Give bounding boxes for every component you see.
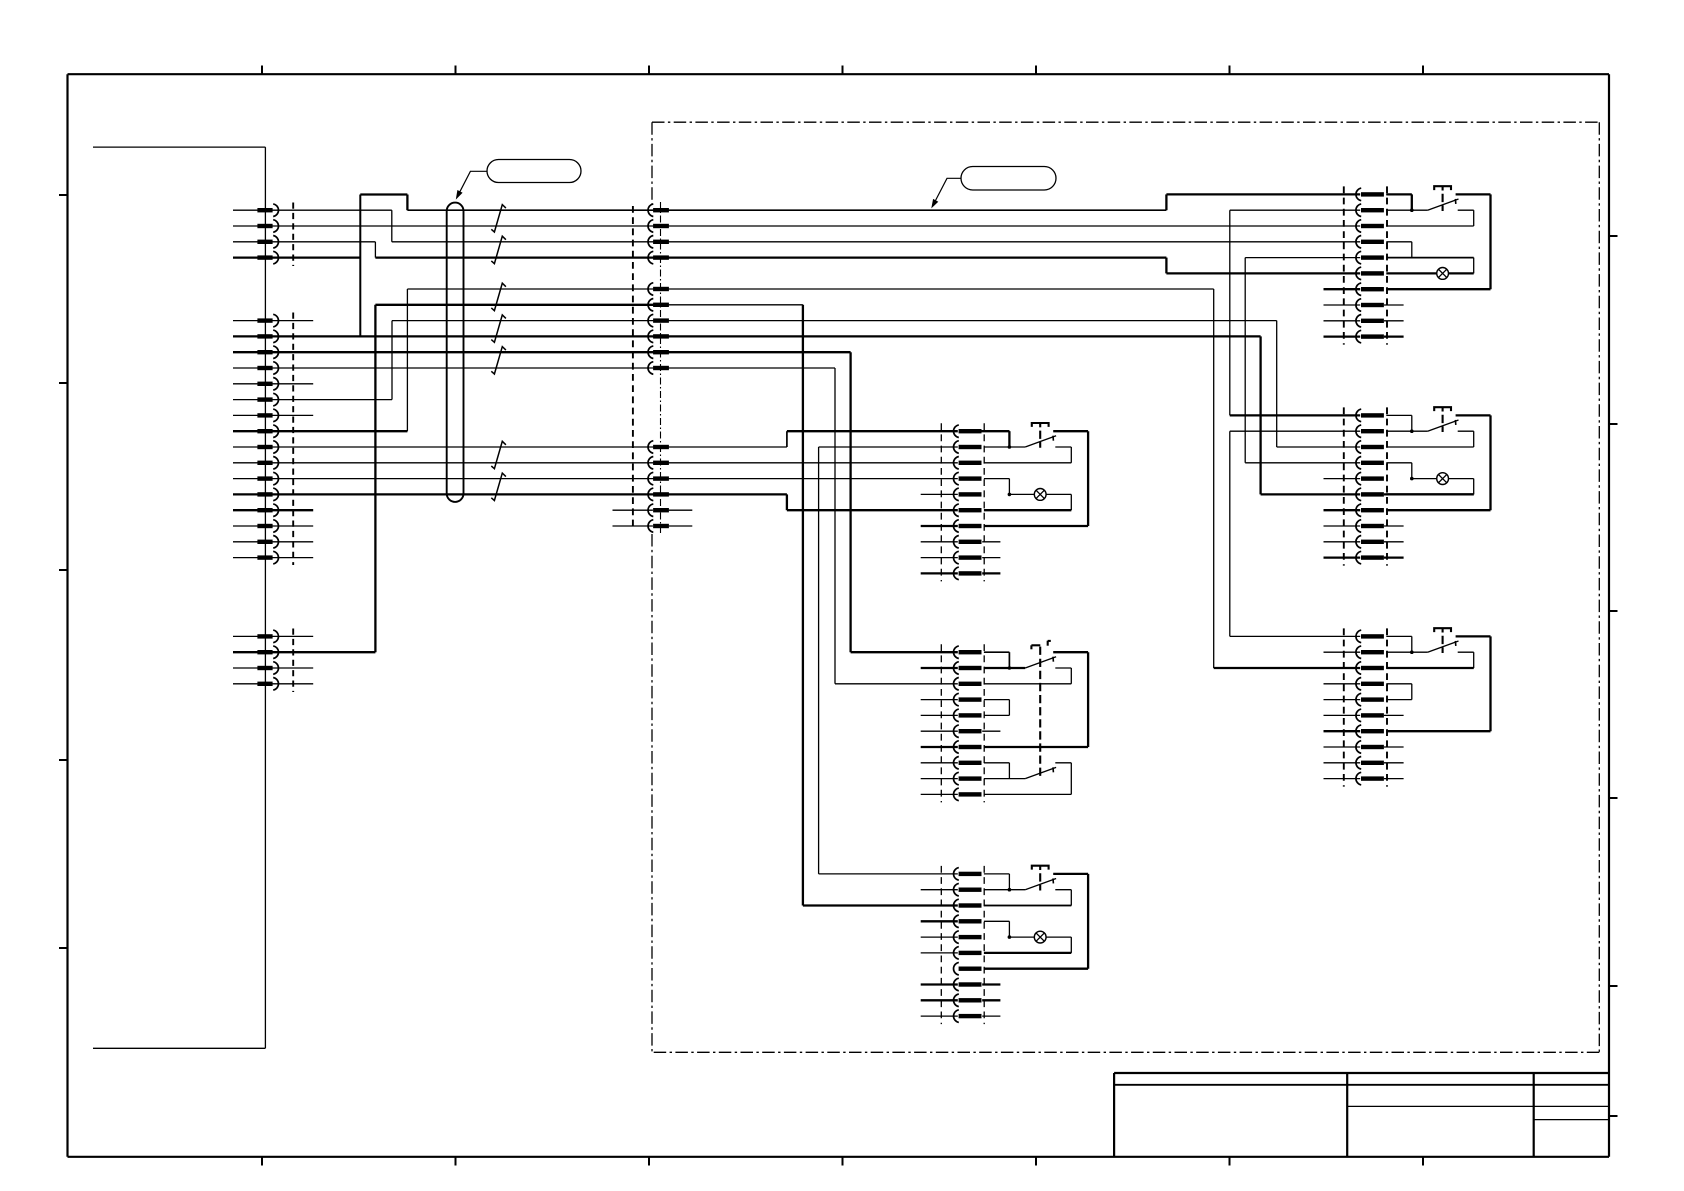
bulkhead connector J2 dashed line xyxy=(632,206,634,530)
callout 2 leader arrow xyxy=(931,178,961,208)
switch S4 NO loop xyxy=(1386,415,1490,510)
connector J1 group-1 pin 4 xyxy=(257,251,278,264)
lamp L8 junction dot xyxy=(1008,935,1012,939)
wire row-210 feed xyxy=(407,209,1166,211)
connector P6 pin 5 xyxy=(954,488,982,501)
connector J1 group-3 pin 2 xyxy=(257,646,278,659)
connector P8 pin 10 xyxy=(954,1010,982,1023)
bulkhead J2 group-3 pin 6 xyxy=(648,520,669,533)
switch S3 junction dot xyxy=(1410,208,1414,212)
switch S3 NC contact wire xyxy=(1386,210,1473,226)
wire P4 pin8 stubs xyxy=(1324,525,1404,527)
wire P6 pin1 link thick xyxy=(981,431,1010,447)
wire riser mid-p2 long xyxy=(374,305,376,652)
switch S3 NO loop xyxy=(1386,194,1490,289)
bulkhead J2 group-1 pin 4 xyxy=(648,251,669,264)
lamp L4 pin4 link xyxy=(1386,463,1412,479)
wire J1g2-6 to riser xyxy=(233,321,392,400)
wire P8 pin8 stubs xyxy=(921,983,1001,985)
wire J1g2-15 stub xyxy=(233,541,313,543)
lamp L4 bulb xyxy=(1437,473,1449,485)
wire J1g2-5 stub xyxy=(233,383,313,385)
callout balloon 2 xyxy=(961,167,1056,191)
wire row-289 bus xyxy=(407,288,1213,290)
connector P4 pin 7 xyxy=(1356,504,1384,517)
switch S7b contact wire xyxy=(984,763,1071,795)
switch S4 blade xyxy=(1428,420,1459,431)
connector P3 dashed lines xyxy=(1344,186,1387,344)
wire-count slash 1 xyxy=(491,205,506,232)
bulkhead J2 group-2 pin 5 xyxy=(648,346,669,359)
bulkhead J2 group-1 pin 2 xyxy=(648,220,669,233)
connector P5 dashed lines xyxy=(1344,628,1387,786)
lamp L6 bulb xyxy=(1034,489,1046,501)
wire J1g2-3 row-352 bus xyxy=(233,351,851,353)
wire P3 pin9 stubs xyxy=(1324,320,1404,322)
switch S6 junction dot xyxy=(1008,445,1012,449)
wire P7 pin2 stub xyxy=(921,667,958,669)
connector P8 dashed lines xyxy=(941,866,984,1024)
connector P7 pin 5 xyxy=(954,709,982,722)
switch S5 pin1 link xyxy=(1386,636,1412,652)
connector J1 group-2 pin 6 xyxy=(257,393,278,406)
connector J1 body line xyxy=(264,147,266,1048)
connector P8 pin 5 xyxy=(954,931,982,944)
wire riser to RM pin3 xyxy=(1277,321,1361,447)
wire-count slash 7 xyxy=(491,473,506,500)
wire J1g2-10 row-463 to C2 pin3 xyxy=(233,462,958,464)
switch S8 NC contact wire xyxy=(984,890,1071,906)
switch S7a stepped actuator xyxy=(1031,641,1050,650)
connector P3 pin 10 xyxy=(1356,330,1384,343)
connector P8 pin 3 xyxy=(954,899,982,912)
connector P6 pin 3 xyxy=(954,457,982,470)
wire P5 pin7 stub xyxy=(1324,730,1361,732)
lamp L6 junction dot xyxy=(1008,493,1012,497)
bulkhead J2 group-2 pin 6 xyxy=(648,362,669,375)
wire P5 pin4 stub xyxy=(1324,683,1361,685)
wire P7 pin10 stub xyxy=(921,793,958,795)
connector J1 group-3 pin 4 xyxy=(257,678,278,691)
wire P4 pin9 stubs xyxy=(1324,541,1404,543)
wire P7 pin8 stub xyxy=(921,762,958,764)
title block rows xyxy=(1114,1085,1609,1120)
connector J1 group-2 pin 11 xyxy=(257,472,278,485)
wire P3 pin7 stub xyxy=(1324,288,1361,290)
switch S7a junction dot xyxy=(1008,666,1012,670)
wire P6 pin9 stubs xyxy=(921,557,1001,559)
lamp L3 pin4 link xyxy=(1386,242,1412,258)
connector J1 group-3 pin 1 xyxy=(257,630,278,643)
switch S7b pin8 link xyxy=(984,763,1010,779)
connector P4 pin 8 xyxy=(1356,520,1384,533)
bulkhead J2 group-1 pin 3 xyxy=(648,236,669,249)
switch S6 pin1 link xyxy=(984,431,1010,447)
connector J1 group-2 pin 16 xyxy=(257,551,278,564)
connector P7 pin 8 xyxy=(954,757,982,770)
switch S6 common wire xyxy=(984,446,1025,448)
wire P5 pin9 stubs xyxy=(1324,762,1404,764)
switch S7a NC contact wire xyxy=(984,668,1071,684)
connector P3 pin 5 xyxy=(1356,251,1384,264)
connector P8 pin 4 xyxy=(954,915,982,928)
title block frame xyxy=(1114,1073,1609,1157)
wire P4 pin5 stub xyxy=(1324,478,1361,480)
connector P7 pin 10 xyxy=(954,788,982,801)
bulkhead J2 group-3 pin 3 xyxy=(648,472,669,485)
connector J1 group-2 pin 4 xyxy=(257,362,278,375)
connector P3 pin 9 xyxy=(1356,315,1384,328)
switch S5 common wire xyxy=(1386,651,1427,653)
connector P6 pin 7 xyxy=(954,520,982,533)
switch S4 actuator xyxy=(1434,407,1451,432)
wire drop J1-1 to row242 xyxy=(391,210,393,242)
connector P7 pin 2 xyxy=(954,662,982,675)
switch S7a pin1 link xyxy=(984,652,1010,668)
connector P6 pin 10 xyxy=(954,567,982,580)
connector J1 group-2 pin 8 xyxy=(257,425,278,438)
connector J1 group-2 pin 14 xyxy=(257,520,278,533)
connector P6 pin 1 xyxy=(954,425,982,438)
switch S6 NO loop xyxy=(984,431,1088,526)
switch S8 actuator xyxy=(1032,866,1049,891)
connector J1 group-3 pin 3 xyxy=(257,662,278,675)
connector P5 pin 4 xyxy=(1356,678,1384,691)
wire-count slash 3 xyxy=(491,283,506,310)
wire P5 pin5 stub xyxy=(1324,699,1361,701)
wire riser up-over xyxy=(360,195,407,337)
wire J1-2 to TR pin3 row-226 xyxy=(233,225,1360,227)
connector J1 group-2 pin 7 xyxy=(257,409,278,422)
wire P6 pin10 stubs xyxy=(921,572,1001,574)
jumper P7 pins4-5 xyxy=(984,700,1010,716)
switch S3 common wire xyxy=(1386,209,1427,211)
wire P7 pin5 stub xyxy=(921,714,958,716)
wire J1g2-14 stub xyxy=(233,525,313,527)
bulkhead J2 group-3 pin 5 xyxy=(648,504,669,517)
connector P7 pin 7 xyxy=(954,741,982,754)
callout balloon 1 xyxy=(487,160,581,183)
switch S6 blade xyxy=(1025,436,1056,447)
switch S7b blade xyxy=(1025,767,1056,778)
wire drop J1-3 to row258 xyxy=(374,242,376,258)
connector P7 pin 3 xyxy=(954,678,982,691)
connector J1 group-2 pin 3 xyxy=(257,346,278,359)
connector P4 pin 2 xyxy=(1356,425,1384,438)
connector P6 pin 4 xyxy=(954,472,982,485)
wire P5 pin2 stub xyxy=(1324,651,1361,653)
wire P6 pin7 stub xyxy=(921,525,958,527)
wire P8 pin3 inner xyxy=(984,905,1071,907)
bulkhead J2 group-2 pin 1 xyxy=(648,283,669,296)
wire jog to C2 pin1 xyxy=(787,431,958,447)
wire P8 pin5 stub xyxy=(921,936,958,938)
wire J1-4 to riser xyxy=(233,256,360,258)
wire-count slash 4 xyxy=(491,315,506,342)
wire row-242 to TR pin4 xyxy=(392,241,1360,243)
lamp L8 circuit xyxy=(984,937,1071,953)
wire J1g2-11 row-478 to C2 pin4 xyxy=(233,478,958,480)
wire J1g2-7 stub xyxy=(233,414,313,416)
connector P4 pin 5 xyxy=(1356,472,1384,485)
switch S3 blade xyxy=(1428,199,1459,210)
wire row-320 bus xyxy=(392,320,1277,322)
wire P5 pin10 stubs xyxy=(1324,778,1404,780)
connector P5 pin 8 xyxy=(1356,741,1384,754)
connector P5 pin 3 xyxy=(1356,662,1384,675)
bulkhead J2 group-3 pin 2 xyxy=(648,457,669,470)
lamp L6 circuit xyxy=(984,494,1071,510)
switch S8 common wire xyxy=(984,889,1025,891)
wire riser to LR pin3 xyxy=(1214,289,1361,668)
wire P8 pin6 stub xyxy=(921,952,958,954)
connector P5 pin 9 xyxy=(1356,757,1384,770)
bulkhead J2 group-3 pin 4 xyxy=(648,488,669,501)
connector P8 pin 2 xyxy=(954,883,982,896)
connector P6 pin 9 xyxy=(954,551,982,564)
wire P5 pin3 thick xyxy=(1386,667,1473,669)
connector P3 pin 1 xyxy=(1356,188,1384,201)
switch S3 actuator xyxy=(1434,186,1451,211)
bulkhead J2 group-3 pin 1 xyxy=(648,441,669,454)
connector P5 pin 5 xyxy=(1356,693,1384,706)
lamp L4 junction dot xyxy=(1410,477,1414,481)
connector P4 pin 9 xyxy=(1356,536,1384,549)
connector J1 mating dashed line xyxy=(292,203,294,693)
wire P8 pin10 stubs xyxy=(921,1015,1001,1017)
connector P4 pin 4 xyxy=(1356,457,1384,470)
switch S5 actuator xyxy=(1434,628,1451,653)
switch S7a NO loop xyxy=(984,652,1088,747)
wire midg3-6 stubs xyxy=(613,525,693,527)
switch S7b common xyxy=(984,778,1025,780)
switch S8 NO loop xyxy=(984,874,1088,969)
connector P7 pin 4 xyxy=(954,693,982,706)
wire-count slash 6 xyxy=(491,441,506,468)
wire P5 pin8 stubs xyxy=(1324,746,1404,748)
wire C2p2 riser to C4p1 xyxy=(819,447,958,874)
switch S6 NC contact wire xyxy=(984,447,1071,463)
connector J1 group-2 pin 13 xyxy=(257,504,278,517)
lamp L6 pin4 link xyxy=(984,479,1010,495)
connector J1 group-1 pin 2 xyxy=(257,220,278,233)
switch S5 junction dot xyxy=(1410,650,1414,654)
connector P3 pin 3 xyxy=(1356,220,1384,233)
connector P3 pin 2 xyxy=(1356,204,1384,217)
switch S3 pin1 link xyxy=(1386,194,1412,210)
switch S7a blade xyxy=(1025,657,1056,668)
switch S8 junction dot xyxy=(1008,888,1012,892)
wire J1g2-16 stub xyxy=(233,557,313,559)
wire P5 pin6 stubs xyxy=(1324,714,1404,716)
wire jog to TR pin6 xyxy=(1166,258,1360,274)
connector J1 group-2 pin 1 xyxy=(257,314,278,327)
lamp L8 bulb xyxy=(1034,931,1046,943)
switch S4 NC contact wire xyxy=(1386,431,1473,447)
connector P5 pin 6 xyxy=(1356,709,1384,722)
wire row-258 feed xyxy=(375,256,1166,258)
bulkhead J2 group-2 pin 4 xyxy=(648,330,669,343)
wire P3 pin8 stubs xyxy=(1324,304,1404,306)
wire J1-3 stub xyxy=(233,241,375,243)
wire P4 pin6 inner xyxy=(1384,493,1474,495)
lamp L8 pin4 link xyxy=(984,921,1010,937)
connector P7 pin 6 xyxy=(954,725,982,738)
switch S7a common wire xyxy=(984,667,1025,669)
connector P7 pin 1 xyxy=(954,646,982,659)
connector P8 pin 9 xyxy=(954,994,982,1007)
wire riser RMp2-LRp1 xyxy=(1230,431,1360,636)
lamp L3 bulb xyxy=(1437,268,1449,280)
bulkhead connector J2 center line xyxy=(660,202,662,534)
connector P3 pin 6 xyxy=(1356,267,1384,280)
wire riser to C3 pin3 xyxy=(835,368,958,684)
wire riser TRp2 chain xyxy=(1230,210,1360,415)
wire P8 pin9 stubs xyxy=(921,999,1001,1001)
switch S5 blade xyxy=(1428,641,1459,652)
wire J1g3-3 stub xyxy=(233,667,313,669)
connector P4 pin 6 xyxy=(1356,488,1384,501)
jumper P5 pins4-5 xyxy=(1386,684,1412,700)
wire branch RM pin1 xyxy=(1230,414,1360,416)
wire P6 pin8 stubs xyxy=(921,541,1001,543)
wire mid-p2 row-305 xyxy=(375,304,668,306)
connector P6 pin 8 xyxy=(954,536,982,549)
connector P6 dashed lines xyxy=(941,423,984,581)
wire J1g2-12 row-494 bus xyxy=(233,493,787,495)
switch S4 junction dot xyxy=(1410,429,1414,433)
wire P8 pin4 stub xyxy=(921,920,958,922)
wire J1g2-13 stub xyxy=(233,509,313,511)
wire J1g2-1 stub xyxy=(233,320,313,322)
connector P5 pin 1 xyxy=(1356,630,1384,643)
connector P8 pin 1 xyxy=(954,868,982,881)
connector P3 pin 8 xyxy=(1356,299,1384,312)
cable bundle oval xyxy=(447,203,464,502)
wire P7 pin9 stub xyxy=(921,778,958,780)
wire P4 pin7 stub xyxy=(1324,509,1361,511)
wire P7 pin6 stubs xyxy=(921,730,1001,732)
connector P4 pin 10 xyxy=(1356,551,1384,564)
connector P3 pin 4 xyxy=(1356,236,1384,249)
connector P5 pin 10 xyxy=(1356,772,1384,785)
wire P3 pin10 stubs xyxy=(1324,335,1404,337)
connector P8 pin 6 xyxy=(954,947,982,960)
wire midg3-5 stubs xyxy=(613,509,693,511)
bulkhead J2 group-2 pin 2 xyxy=(648,299,669,312)
connector P6 pin 6 xyxy=(954,504,982,517)
bulkhead J2 group-1 pin 1 xyxy=(648,204,669,217)
wire-count slash 2 xyxy=(491,236,506,263)
switch S6 actuator xyxy=(1032,423,1049,448)
connector J1 group-2 pin 10 xyxy=(257,457,278,470)
switch S5 NC contact wire xyxy=(1386,652,1473,668)
connector P7 pin 9 xyxy=(954,772,982,785)
callout 1 leader arrow xyxy=(456,171,487,199)
connector J1 group-2 pin 15 xyxy=(257,536,278,549)
connector P5 pin 2 xyxy=(1356,646,1384,659)
switch S8 pin1 link xyxy=(984,874,1010,890)
connector J1 group-2 pin 9 xyxy=(257,441,278,454)
switch S5 NO loop xyxy=(1386,636,1490,731)
wire J1g2-8 to riser xyxy=(233,289,407,431)
connector P8 pin 8 xyxy=(954,978,982,991)
wire P4 pin10 stubs xyxy=(1324,556,1404,558)
wire riser TR pin5 xyxy=(1245,258,1360,463)
connector P8 pin 7 xyxy=(954,962,982,975)
wire-count slash 5 xyxy=(491,347,506,374)
wire jog to TR pin1 xyxy=(1166,194,1360,210)
switch S7 gang linkage xyxy=(1039,647,1041,777)
wire mid-p2 to C4 riser xyxy=(669,305,958,906)
wire P8 pin2 stub xyxy=(921,889,958,891)
bulkhead J2 group-2 pin 3 xyxy=(648,314,669,327)
switch S4 common wire xyxy=(1386,430,1427,432)
wire J1g2-4 row-368 bus xyxy=(233,367,835,369)
wire J1g3-1 stub xyxy=(233,635,313,637)
wire J1g3-2 thick xyxy=(233,651,375,653)
connector J1 group-2 pin 2 xyxy=(257,330,278,343)
connector J1 group-2 pin 5 xyxy=(257,378,278,391)
connector J1 group-1 pin 1 xyxy=(257,204,278,217)
wire J1g3-4 stub xyxy=(233,683,313,685)
lamp L4 circuit xyxy=(1386,479,1473,495)
wire P6 pin5 stub xyxy=(921,493,958,495)
connector P4 pin 3 xyxy=(1356,441,1384,454)
connector P4 dashed lines xyxy=(1344,407,1387,565)
connector P6 pin 2 xyxy=(954,441,982,454)
wire P7 pin4 stub xyxy=(921,699,958,701)
connector J1 group-1 pin 3 xyxy=(257,236,278,249)
lamp L3 circuit xyxy=(1386,258,1473,274)
connector P7 dashed lines xyxy=(941,644,984,802)
wire P3 pin1 link thick xyxy=(1386,194,1412,210)
connector P4 pin 1 xyxy=(1356,409,1384,422)
connector J1 group-2 pin 12 xyxy=(257,488,278,501)
equipment box outline (left) xyxy=(93,147,265,1048)
wire riser to C3 pin1 xyxy=(851,352,958,652)
wire riser to RM pin6 xyxy=(1261,336,1361,494)
switch S8 blade xyxy=(1025,878,1056,889)
wire P7 pin7 stub xyxy=(921,746,958,748)
connector P5 pin 7 xyxy=(1356,725,1384,738)
switch S4 pin1 link xyxy=(1386,415,1412,431)
wire J1-1 stub xyxy=(233,209,392,211)
harness boundary box (dash-dot) xyxy=(652,122,1599,1052)
connector P3 pin 7 xyxy=(1356,283,1384,296)
wire J1g2-9 row-447 xyxy=(233,446,787,448)
wire jog to C2 pin6 xyxy=(787,494,958,510)
wire J1g2-2 row-336 bus xyxy=(233,335,1261,337)
